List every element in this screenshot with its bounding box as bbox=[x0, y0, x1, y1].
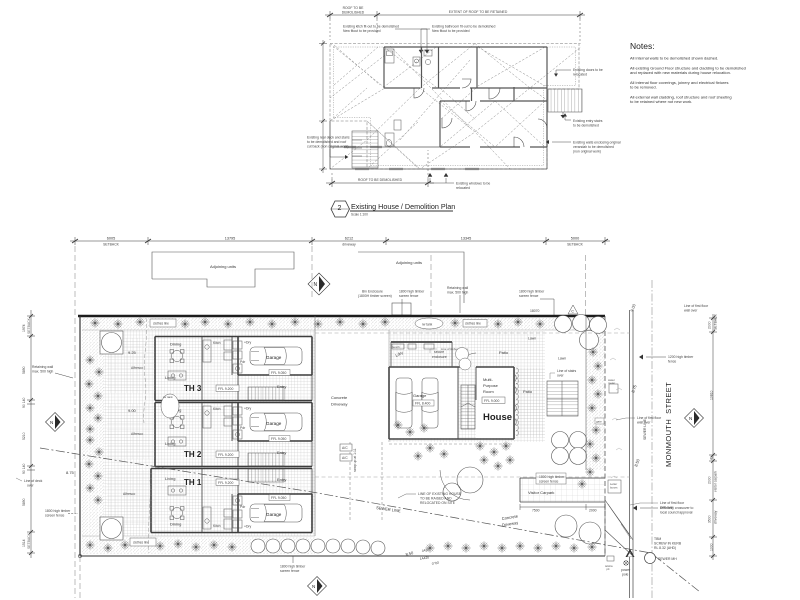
TH1 garage FFL bbox=[269, 495, 290, 501]
svg-text:+Dry: +Dry bbox=[244, 525, 252, 529]
svg-text:LINE OF EXISTING HOUSE: LINE OF EXISTING HOUSE bbox=[418, 492, 462, 496]
house south circle trees 2x2 bbox=[552, 432, 587, 465]
svg-text:1000: 1000 bbox=[710, 543, 714, 551]
svg-text:+Dry: +Dry bbox=[244, 341, 252, 345]
svg-text:1514: 1514 bbox=[22, 539, 26, 547]
TH3 living table bbox=[168, 371, 186, 380]
TH1 alfresco slab bbox=[107, 470, 155, 525]
site boundary: right edge bbox=[604, 316, 606, 556]
svg-text:fence: fence bbox=[668, 360, 676, 364]
svg-text:pit: pit bbox=[607, 567, 610, 571]
house windows right wall bbox=[514, 374, 516, 426]
svg-text:TO BE RAISED AND: TO BE RAISED AND bbox=[420, 497, 452, 501]
svg-text:7500: 7500 bbox=[532, 509, 540, 513]
driveway crossover splay bbox=[605, 500, 633, 556]
svg-text:Existing doors to be: Existing doors to be bbox=[573, 68, 603, 72]
rainwater tank top bbox=[415, 318, 443, 329]
svg-text:5890: 5890 bbox=[22, 498, 26, 506]
clothes line bottom bbox=[130, 538, 156, 546]
svg-text:Pdr: Pdr bbox=[240, 426, 246, 430]
gate label bbox=[595, 418, 604, 424]
svg-text:90 140: 90 140 bbox=[22, 398, 26, 408]
left bed stars TH3 bbox=[84, 355, 103, 412]
north symbol left bbox=[46, 413, 65, 432]
svg-text:2000: 2000 bbox=[708, 321, 712, 329]
svg-text:FFL 8.400: FFL 8.400 bbox=[415, 402, 430, 406]
ramp edge lines bbox=[350, 442, 382, 520]
svg-text:Lawn: Lawn bbox=[528, 337, 536, 341]
svg-text:over: over bbox=[557, 374, 564, 378]
TH1 garage floor bbox=[240, 495, 311, 532]
svg-text:ROOF TO BE: ROOF TO BE bbox=[343, 6, 365, 10]
roof hip dashed diagonals bbox=[330, 44, 581, 170]
svg-text:SEWER MH: SEWER MH bbox=[658, 557, 677, 561]
bottom dimension: roof to be demolished bbox=[326, 150, 434, 187]
TH3 stairs bbox=[248, 387, 284, 400]
bottom bed stars right bbox=[425, 541, 596, 552]
svg-text:TH 1: TH 1 bbox=[184, 478, 202, 487]
svg-text:1800 high timber: 1800 high timber bbox=[519, 290, 545, 294]
kitchen fixtures bbox=[385, 49, 432, 146]
rear deck stairs left (hatched) bbox=[352, 131, 378, 168]
svg-text:Living: Living bbox=[165, 375, 175, 380]
svg-text:RL 8.32 (AHD): RL 8.32 (AHD) bbox=[654, 546, 676, 550]
TH1 walls bbox=[151, 469, 312, 533]
svg-text:TH 2: TH 2 bbox=[184, 450, 202, 459]
svg-text:clothes line: clothes line bbox=[153, 322, 169, 326]
driveway west edge bbox=[314, 316, 316, 536]
top bed star trees bbox=[90, 317, 544, 328]
svg-text:Retaining wall: Retaining wall bbox=[447, 286, 468, 290]
svg-text:Pdr: Pdr bbox=[240, 360, 246, 364]
svg-text:FFL 9.200: FFL 9.200 bbox=[218, 481, 233, 485]
svg-text:8.75: 8.75 bbox=[66, 470, 75, 475]
svg-text:Existing entry stairs: Existing entry stairs bbox=[573, 119, 603, 123]
svg-text:over: over bbox=[27, 484, 34, 488]
svg-text:(non original work): (non original work) bbox=[573, 150, 601, 154]
TH1 living table bbox=[168, 486, 186, 495]
svg-text:DEMOLISHED: DEMOLISHED bbox=[342, 11, 365, 15]
big tree SW of house bbox=[440, 467, 483, 501]
svg-text:TH 3: TH 3 bbox=[184, 384, 202, 393]
water meter bbox=[608, 378, 618, 393]
svg-text:Dining: Dining bbox=[170, 342, 181, 347]
svg-text:+Dry: +Dry bbox=[244, 407, 252, 411]
house garage FFL bbox=[413, 400, 434, 406]
top garden bed stipple bbox=[82, 318, 605, 331]
right dimension line bbox=[709, 314, 717, 560]
TH3 walls bbox=[155, 337, 312, 401]
clothes line top2 bbox=[463, 320, 487, 328]
svg-text:max. 500 high: max. 500 high bbox=[32, 370, 53, 374]
svg-text:local council approval: local council approval bbox=[660, 511, 693, 515]
sewer manhole bbox=[645, 553, 656, 564]
TBM triangle bbox=[626, 549, 635, 557]
svg-text:Dining: Dining bbox=[170, 522, 181, 527]
property boundary dashed verticals bbox=[75, 246, 652, 598]
svg-text:Existing rear deck and stairs: Existing rear deck and stairs bbox=[307, 136, 350, 140]
svg-text:FFL 9.050: FFL 9.050 bbox=[271, 496, 286, 500]
svg-text:to be demolished and roof: to be demolished and roof bbox=[307, 140, 346, 144]
left bed stars TH1 bbox=[84, 435, 103, 504]
svg-text:enclosure: enclosure bbox=[432, 355, 447, 359]
kerb lines bbox=[630, 310, 634, 598]
svg-text:10810: 10810 bbox=[710, 390, 714, 400]
site boundary: left edge bbox=[79, 316, 81, 556]
svg-text:power: power bbox=[621, 568, 631, 572]
svg-text:Garage: Garage bbox=[266, 512, 282, 517]
svg-text:boxes: boxes bbox=[610, 485, 618, 489]
TH3 garage FFL bbox=[269, 370, 290, 376]
contour line 8.75 bbox=[149, 480, 151, 553]
svg-text:A/C: A/C bbox=[342, 456, 348, 460]
svg-text:Line of first floor: Line of first floor bbox=[684, 304, 709, 308]
white floor: house garage bbox=[390, 368, 458, 438]
east garden bed stipple bbox=[586, 330, 605, 470]
svg-text:wall over: wall over bbox=[660, 506, 674, 510]
svg-text:screen fence: screen fence bbox=[539, 480, 559, 484]
svg-text:Living: Living bbox=[165, 476, 175, 481]
visitor carpark dims bbox=[520, 504, 605, 510]
svg-text:FFL 9.050: FFL 9.050 bbox=[271, 371, 286, 375]
svg-text:screen fence: screen fence bbox=[519, 294, 539, 298]
house garage cars bbox=[396, 378, 412, 428]
top right circle trees bbox=[555, 315, 607, 350]
TH1 FFL label bbox=[216, 479, 239, 485]
svg-text:screen fence: screen fence bbox=[45, 514, 65, 518]
svg-text:MONMOUTH STREET: MONMOUTH STREET bbox=[664, 382, 673, 467]
svg-text:5890: 5890 bbox=[22, 366, 26, 374]
townhouse TH3 bbox=[107, 337, 312, 401]
entry court trees bbox=[456, 348, 469, 361]
triangle marker C top bbox=[568, 305, 578, 314]
svg-text:wall over: wall over bbox=[637, 421, 651, 425]
TH2 dining table bbox=[170, 416, 184, 429]
TH2 garage car bbox=[250, 413, 302, 431]
door swing arcs bbox=[414, 79, 547, 147]
big trees SE driveway bbox=[555, 515, 601, 544]
svg-text:Patio: Patio bbox=[523, 389, 533, 394]
svg-text:Driveway: Driveway bbox=[331, 402, 347, 407]
townhouse TH2 bbox=[107, 403, 312, 467]
svg-text:2: 2 bbox=[338, 205, 342, 212]
svg-text:House: House bbox=[483, 412, 512, 423]
svg-text:New fitout to be provided: New fitout to be provided bbox=[343, 29, 381, 33]
svg-text:Kitch: Kitch bbox=[213, 407, 221, 411]
svg-text:to be demolished: to be demolished bbox=[573, 124, 599, 128]
svg-text:N: N bbox=[312, 584, 315, 589]
svg-text:6212: 6212 bbox=[345, 237, 353, 241]
left bed stars TH2 bbox=[85, 413, 102, 433]
svg-text:A/C: A/C bbox=[342, 446, 348, 450]
svg-text:Visitor Carpark: Visitor Carpark bbox=[528, 490, 554, 495]
left garden bed stipple bbox=[82, 330, 104, 554]
svg-text:5210: 5210 bbox=[22, 432, 26, 440]
svg-text:clothes line: clothes line bbox=[133, 541, 149, 545]
north symbol street bbox=[685, 409, 704, 428]
svg-text:18070: 18070 bbox=[530, 309, 540, 313]
east bed stars (street side) bbox=[577, 347, 602, 488]
svg-text:EXTENT OF ROOF TO BE RETAINED: EXTENT OF ROOF TO BE RETAINED bbox=[449, 10, 508, 14]
A/C units bbox=[340, 444, 352, 451]
roof outline (dashed) bbox=[330, 44, 579, 170]
svg-text:screen fence: screen fence bbox=[280, 569, 300, 573]
TH2 living table bbox=[168, 437, 186, 446]
svg-text:(1800H timber screen): (1800H timber screen) bbox=[358, 294, 392, 298]
svg-text:Existing windows to be: Existing windows to be bbox=[456, 182, 490, 186]
svg-text:and replaced with new material: and replaced with new materials during h… bbox=[630, 70, 731, 75]
svg-text:FFL 9.200: FFL 9.200 bbox=[218, 387, 233, 391]
svg-text:Adjoining units: Adjoining units bbox=[210, 264, 236, 269]
house south garden stars bbox=[393, 420, 514, 470]
north symbol bottom bbox=[308, 577, 327, 596]
left bed planter TH1 bbox=[100, 517, 123, 540]
top garden bed edge bbox=[82, 329, 605, 331]
TH3 kitchen fixtures bbox=[203, 340, 242, 373]
svg-text:Retaining wall: Retaining wall bbox=[32, 365, 53, 369]
svg-text:Patio: Patio bbox=[499, 350, 509, 355]
svg-text:screen fence: screen fence bbox=[399, 294, 419, 298]
left bed planter TH3 bbox=[100, 331, 123, 354]
TH1 garage car bbox=[250, 504, 302, 522]
TH3 dining table bbox=[170, 350, 184, 363]
TH3 garage floor bbox=[240, 338, 311, 375]
TH2 FFL label bbox=[216, 451, 239, 457]
svg-text:3500: 3500 bbox=[708, 515, 712, 523]
white floor: MPR bbox=[476, 368, 514, 438]
screen fence east line bbox=[585, 316, 587, 470]
svg-text:Entry: Entry bbox=[277, 477, 286, 482]
svg-text:Entry: Entry bbox=[277, 384, 286, 389]
svg-text:Scale 1:100: Scale 1:100 bbox=[351, 213, 368, 217]
svg-text:13345: 13345 bbox=[461, 237, 472, 241]
patio east slab bbox=[516, 368, 545, 437]
site boundary: bottom edge bbox=[80, 555, 605, 557]
svg-text:meter: meter bbox=[608, 381, 615, 385]
svg-text:9.00: 9.00 bbox=[128, 408, 137, 413]
svg-text:driveway: driveway bbox=[714, 510, 718, 524]
svg-text:N: N bbox=[50, 420, 53, 425]
svg-text:Adjoining units: Adjoining units bbox=[396, 260, 422, 265]
svg-text:5000: 5000 bbox=[571, 237, 579, 241]
svg-text:SETBACK: SETBACK bbox=[714, 313, 718, 330]
svg-text:New fitout to be provided: New fitout to be provided bbox=[432, 29, 470, 33]
entry stairs right (hatched) bbox=[548, 89, 582, 118]
north symbol top bbox=[308, 273, 330, 295]
visitor carpark paving bbox=[520, 478, 605, 502]
svg-text:SETBACK: SETBACK bbox=[103, 243, 120, 247]
svg-text:1800 high timber: 1800 high timber bbox=[280, 565, 306, 569]
svg-text:1800 high timber: 1800 high timber bbox=[399, 290, 425, 294]
bottom garden bed stipple bbox=[104, 537, 315, 554]
svg-text:Notes:: Notes: bbox=[630, 41, 655, 51]
svg-text:Kitch: Kitch bbox=[213, 524, 221, 528]
line of deck over (south of house) bbox=[389, 443, 514, 445]
svg-text:9.25: 9.25 bbox=[128, 350, 137, 355]
bottom path circle trees bbox=[251, 539, 385, 555]
svg-text:Existing walls enclosing origi: Existing walls enclosing original bbox=[573, 141, 621, 145]
svg-text:SETBACK: SETBACK bbox=[27, 532, 31, 549]
svg-text:max. 500 high: max. 500 high bbox=[447, 291, 468, 295]
house annex side walls bbox=[391, 342, 452, 367]
svg-text:SETBACK: SETBACK bbox=[27, 317, 31, 334]
svg-text:Living: Living bbox=[165, 441, 175, 446]
corner survey mark bbox=[78, 554, 81, 557]
svg-text:Concrete: Concrete bbox=[331, 395, 348, 400]
garden steps east of house bbox=[547, 381, 578, 416]
title: Existing House / Demolition Plan bbox=[331, 201, 455, 217]
svg-text:Multi-: Multi- bbox=[483, 377, 493, 382]
svg-text:FFL 9.000: FFL 9.000 bbox=[484, 399, 499, 403]
svg-text:RELOCATED ON SITE: RELOCATED ON SITE bbox=[420, 501, 456, 505]
svg-text:Existing House / Demolition Pl: Existing House / Demolition Plan bbox=[351, 202, 455, 211]
svg-text:verandah to be demolished: verandah to be demolished bbox=[573, 145, 614, 149]
house stairs bbox=[461, 385, 475, 429]
svg-text:Purpose: Purpose bbox=[483, 383, 499, 388]
contour line 9.25 bbox=[144, 318, 147, 423]
svg-text:1200 high timber: 1200 high timber bbox=[668, 355, 694, 359]
clothes line top bbox=[150, 319, 176, 327]
house annex fixtures bbox=[392, 344, 434, 349]
left dimension line bbox=[27, 310, 35, 558]
TH1 stairs bbox=[248, 469, 284, 482]
visitor carpark outline bbox=[520, 478, 605, 502]
top dimension line bbox=[70, 237, 610, 245]
TH2 garage FFL bbox=[269, 436, 290, 442]
svg-text:SCREW IN KERB: SCREW IN KERB bbox=[654, 542, 682, 546]
bin enclosure rect bbox=[392, 303, 411, 315]
svg-text:to be removed.: to be removed. bbox=[630, 85, 657, 90]
TH3 alfresco slab bbox=[107, 338, 155, 393]
svg-text:pole: pole bbox=[622, 573, 629, 577]
house forecourt grid bbox=[389, 331, 545, 442]
svg-text:6005: 6005 bbox=[107, 237, 115, 241]
house main walls bbox=[389, 367, 514, 439]
house upper annex wall bbox=[391, 341, 452, 343]
MPR FFL bbox=[482, 397, 505, 403]
svg-text:driveway: driveway bbox=[342, 243, 356, 247]
svg-text:Existing bathroom fit-out to b: Existing bathroom fit-out to be demolish… bbox=[432, 25, 495, 29]
svg-text:Line of stairs: Line of stairs bbox=[557, 369, 577, 373]
telstra pit bbox=[605, 556, 614, 571]
svg-text:Garage: Garage bbox=[266, 355, 282, 360]
svg-text:Line of deck: Line of deck bbox=[24, 479, 43, 483]
svg-text:rw tank: rw tank bbox=[163, 395, 173, 399]
rw tank mid-left bbox=[161, 394, 179, 418]
svg-text:N: N bbox=[689, 416, 692, 421]
svg-text:2000: 2000 bbox=[708, 476, 712, 484]
svg-text:Garage: Garage bbox=[413, 393, 427, 398]
svg-text:Room: Room bbox=[483, 389, 494, 394]
power pole bbox=[624, 561, 628, 565]
verandah light walls + windows bbox=[330, 121, 547, 169]
svg-text:Line of first floor: Line of first floor bbox=[637, 416, 662, 420]
svg-text:13795: 13795 bbox=[225, 237, 236, 241]
left dimension line of demolition plan bbox=[319, 40, 327, 173]
svg-text:N: N bbox=[314, 282, 318, 288]
bottom garden bed edge bbox=[82, 535, 315, 537]
svg-text:Entry: Entry bbox=[277, 450, 286, 455]
shrubs along east wall bbox=[516, 368, 519, 436]
svg-text:visitor carpark: visitor carpark bbox=[714, 471, 718, 492]
svg-text:clothes line: clothes line bbox=[465, 322, 481, 326]
svg-text:Existing kitch fit-out to be d: Existing kitch fit-out to be demolished bbox=[343, 25, 399, 29]
svg-text:ROOF TO BE DEMOLISHED: ROOF TO BE DEMOLISHED bbox=[358, 178, 403, 182]
house entry door gap arc bbox=[462, 353, 476, 367]
TH1 kitchen fixtures bbox=[203, 496, 242, 529]
dimension line: roof demolished / retained bbox=[325, 11, 585, 44]
svg-text:cut back (non original work): cut back (non original work) bbox=[307, 145, 348, 149]
internal walls (heavy) bbox=[330, 47, 547, 147]
svg-text:TBM: TBM bbox=[654, 537, 661, 541]
TH2 walls bbox=[155, 403, 312, 467]
svg-text:1800 high timber: 1800 high timber bbox=[45, 509, 71, 513]
TH2 alfresco slab bbox=[107, 404, 155, 459]
bottom-left dashed boundary continuation bbox=[79, 556, 81, 598]
TH2 stairs bbox=[248, 453, 284, 466]
site boundary: top edge bbox=[78, 315, 605, 318]
svg-text:bench: bench bbox=[392, 345, 400, 349]
svg-text:Line of first floor: Line of first floor bbox=[660, 501, 685, 505]
svg-text:1974: 1974 bbox=[22, 324, 26, 332]
paved courtyard grid (townhouse strip) bbox=[103, 330, 315, 536]
svg-text:FFL 9.050: FFL 9.050 bbox=[271, 437, 286, 441]
svg-text:All internal walls to be demol: All internal walls to be demolished show… bbox=[630, 56, 718, 61]
svg-text:rw tank: rw tank bbox=[422, 323, 433, 327]
svg-text:Garage: Garage bbox=[266, 421, 282, 426]
TH2 kitchen fixtures bbox=[203, 406, 242, 439]
adjoining units outline (left) bbox=[152, 252, 294, 287]
TH3 FFL label bbox=[216, 385, 239, 391]
grass tufts verge bbox=[610, 328, 622, 478]
TH3 garage car bbox=[250, 347, 302, 365]
1800 fence annotation SE bbox=[536, 473, 566, 484]
svg-text:FFL 9.200: FFL 9.200 bbox=[218, 453, 233, 457]
svg-text:relocated: relocated bbox=[456, 186, 470, 190]
svg-text:ramp up at 1:11: ramp up at 1:11 bbox=[353, 448, 357, 472]
letter boxes bbox=[608, 480, 621, 493]
TH2 garage floor bbox=[240, 404, 311, 441]
TH1 dining table bbox=[170, 507, 184, 520]
svg-text:Pdr: Pdr bbox=[240, 505, 246, 509]
svg-text:relocated: relocated bbox=[573, 73, 587, 77]
svg-text:wall over: wall over bbox=[684, 309, 698, 313]
adjoining units outline (right) bbox=[358, 252, 464, 303]
svg-text:40: 40 bbox=[710, 456, 714, 460]
svg-text:gate: gate bbox=[596, 420, 602, 424]
svg-text:Bin Enclosure: Bin Enclosure bbox=[362, 290, 383, 294]
sewer line (diagonal) bbox=[40, 448, 700, 592]
svg-text:Lawn: Lawn bbox=[558, 357, 566, 361]
bottom-left stars bbox=[85, 539, 236, 552]
svg-text:Kitch: Kitch bbox=[213, 341, 221, 345]
svg-text:SETBACK: SETBACK bbox=[567, 243, 584, 247]
townhouse TH1 (mirrored) bbox=[107, 469, 312, 533]
first floor dashed outline around TH garages bbox=[315, 333, 630, 477]
svg-text:to be retained where not new w: to be retained where not new work. bbox=[630, 99, 692, 104]
svg-text:90 140: 90 140 bbox=[22, 464, 26, 474]
svg-text:2000: 2000 bbox=[589, 509, 597, 513]
